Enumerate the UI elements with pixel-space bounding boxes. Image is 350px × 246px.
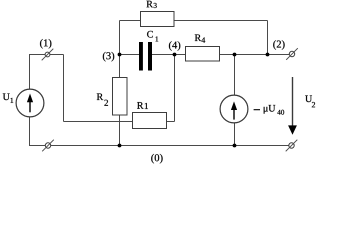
- wire top to R3: [120, 20, 141, 22]
- junction node 4: [173, 53, 177, 57]
- terminal node1: [42, 49, 54, 61]
- wire R3 right to node2: [174, 20, 268, 22]
- label R2: [97, 93, 108, 105]
- terminal bottom right: [286, 140, 298, 152]
- label U1: [3, 93, 13, 102]
- wire node3 down to R2: [119, 55, 121, 79]
- terminal node2: [286, 48, 298, 60]
- label R1: [137, 102, 148, 109]
- label node (0): [151, 154, 162, 164]
- resistor R3: [141, 12, 175, 27]
- controlled current source circle: [220, 95, 248, 123]
- wire left vertical from node1 to U1: [29, 55, 31, 90]
- wire R4 to node2 terminal: [220, 54, 290, 56]
- resistor R4: [186, 47, 220, 62]
- wire R1 right to node4 vertical: [167, 121, 175, 123]
- controlled source arrow: [231, 101, 237, 119]
- wire R2 bottom lead to rail: [119, 115, 121, 147]
- label minus sign of mu-U40: [254, 109, 260, 111]
- wire source bottom lead: [234, 123, 236, 146]
- label R3: [146, 1, 156, 8]
- resistor R1: [133, 113, 167, 129]
- capacitor C1 plates: [139, 42, 152, 71]
- label node (3): [103, 52, 114, 62]
- label C1: [147, 31, 158, 42]
- resistor R2: [113, 78, 128, 116]
- label R4: [195, 34, 205, 42]
- wire node3 vertical up: [119, 21, 121, 55]
- wire U1 bottom lead: [29, 117, 31, 146]
- terminal bottom left: [42, 140, 54, 152]
- wire node1 top horizontal: [29, 54, 64, 56]
- label U2: [305, 95, 315, 107]
- label node (2): [273, 40, 284, 50]
- junction source tap: [233, 53, 237, 57]
- wire node3 to C1: [120, 54, 140, 56]
- wire node2 line down to source: [234, 55, 236, 96]
- label node (1): [40, 39, 51, 49]
- label node (4): [169, 41, 180, 51]
- U1 arrow: [27, 94, 33, 113]
- junction node 2: [266, 53, 270, 57]
- wire node1 right vertical: [63, 55, 65, 122]
- junction rail R2: [118, 144, 122, 148]
- junction rail source: [233, 144, 237, 148]
- current source U1 circle: [16, 89, 44, 117]
- U2 voltage arrow: [288, 77, 297, 135]
- junction node 3: [118, 53, 122, 57]
- label mu-U40: [264, 105, 284, 115]
- wire C1 to R4 through node4: [152, 54, 186, 56]
- wire horizontal to R1: [64, 121, 133, 123]
- wire bottom rail node0: [29, 145, 289, 147]
